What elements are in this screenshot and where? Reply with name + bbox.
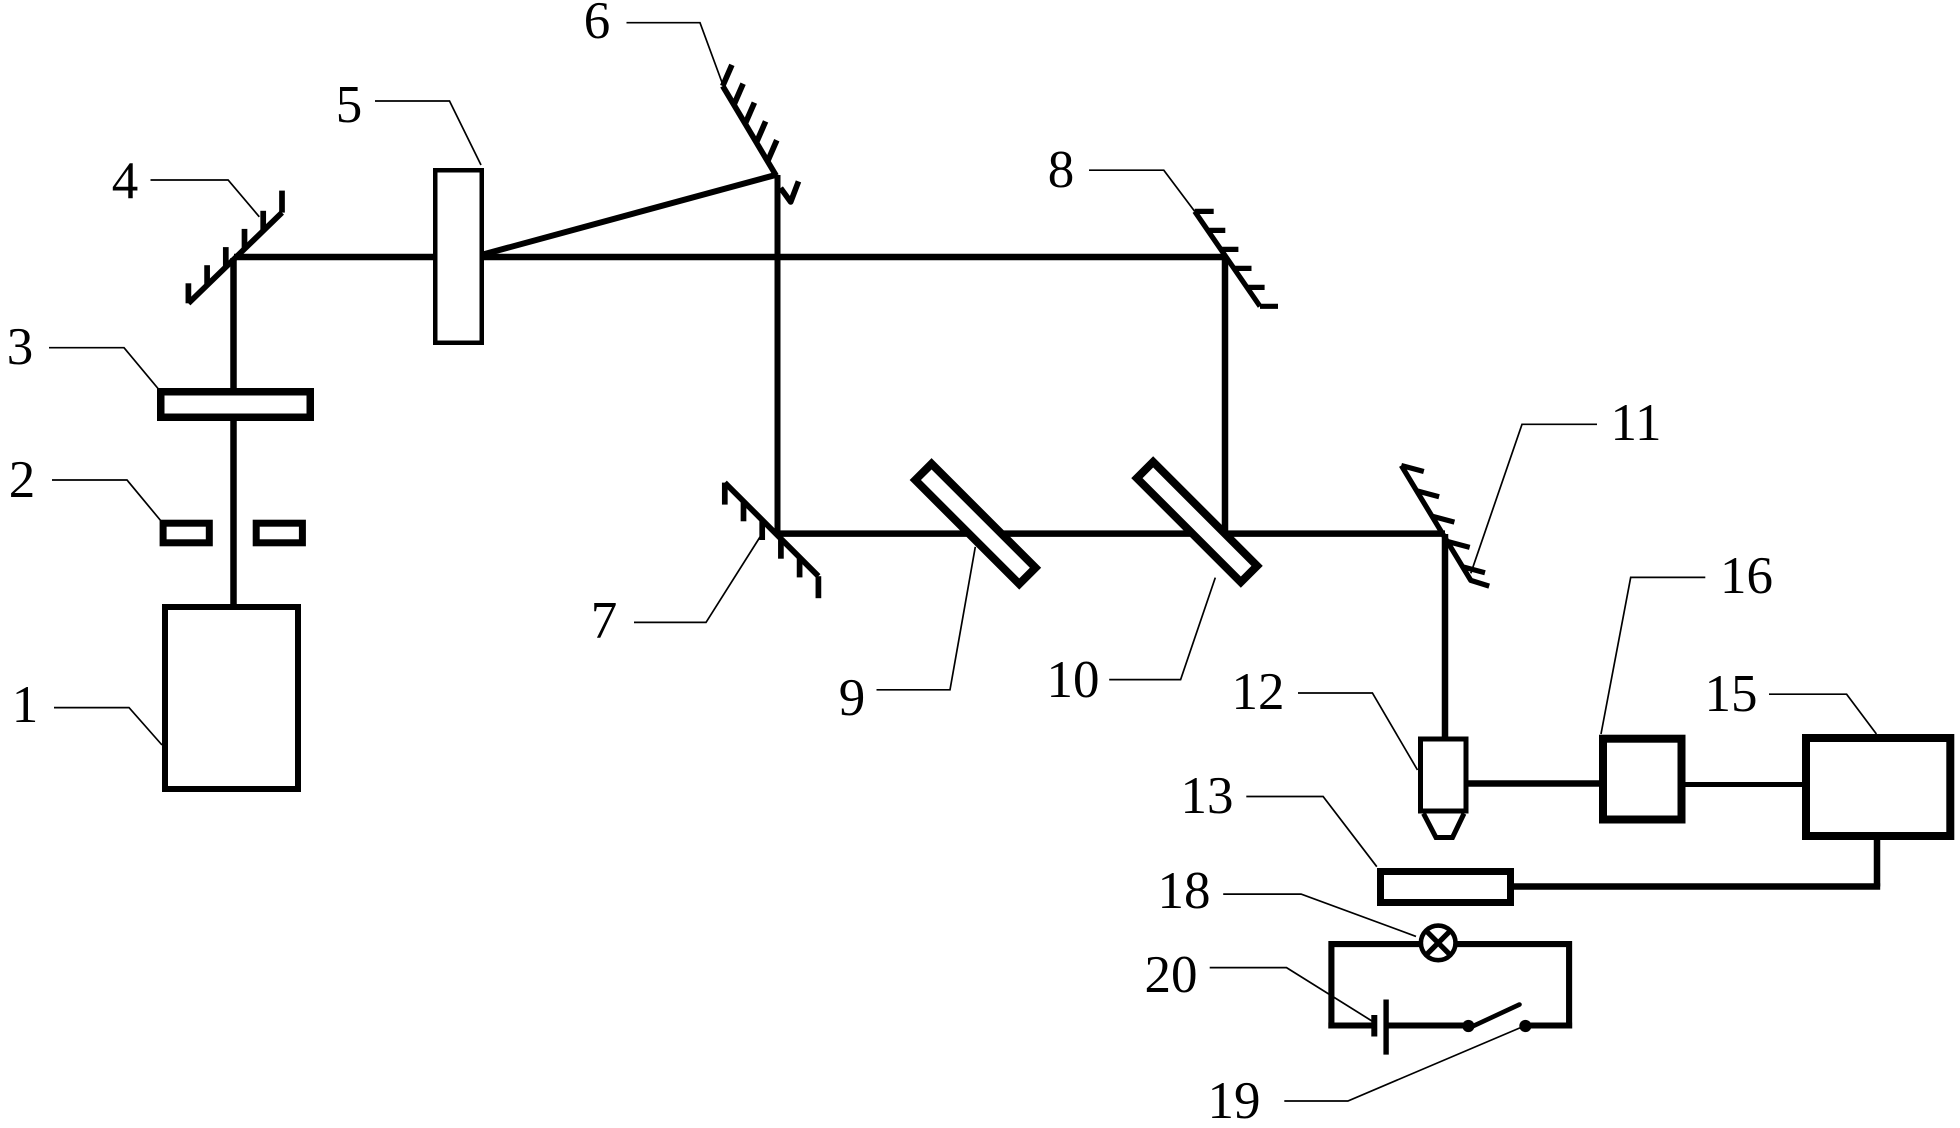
battery 20 short plate <box>1371 1015 1377 1037</box>
filter 3 <box>161 392 311 418</box>
wire: horizontal beam from modulator 5 to mirror 8 <box>460 254 1225 261</box>
svg-text:4: 4 <box>112 152 139 210</box>
svg-text:19: 19 <box>1208 1072 1261 1128</box>
svg-text:16: 16 <box>1720 547 1773 605</box>
label 18 leader <box>1223 894 1416 936</box>
wire: box 15 bottom down <box>1874 838 1881 887</box>
label 16 leader <box>1601 577 1705 734</box>
label 4 leader <box>151 180 260 217</box>
svg-text:11: 11 <box>1610 394 1661 452</box>
svg-text:20: 20 <box>1145 946 1198 1004</box>
wire: horizontal beam from mirror 7 to mirror 11 <box>778 530 1445 537</box>
label 8 leader <box>1089 170 1195 211</box>
svg-text:3: 3 <box>7 318 34 376</box>
modulator 5 <box>435 170 482 343</box>
switch 19 left contact <box>1462 1020 1474 1032</box>
wire: objective 12 to box 16 <box>1466 780 1603 787</box>
switch 19 lever <box>1469 1005 1520 1029</box>
label 19 leader <box>1284 1027 1522 1101</box>
box 16 <box>1603 739 1682 820</box>
mirror 7 <box>725 483 819 599</box>
label 11 leader <box>1471 424 1597 573</box>
svg-text:7: 7 <box>591 592 618 650</box>
switch 19 right contact <box>1519 1020 1531 1032</box>
beamsplitter 9 <box>915 464 1035 584</box>
wire: vertical beam from mirror 4 down through filter 3 to laser 1 <box>230 258 237 606</box>
svg-text:1: 1 <box>12 676 39 734</box>
label 9 leader <box>877 547 976 690</box>
label 12 leader <box>1298 693 1418 770</box>
label 7 leader <box>634 537 760 622</box>
label 6 leader <box>627 23 724 87</box>
svg-text:9: 9 <box>839 669 866 727</box>
wire: box 16 to box 15 <box>1685 782 1806 787</box>
label 5 leader <box>375 101 481 165</box>
aperture 2 left plate <box>163 523 209 543</box>
label 20 leader <box>1210 968 1372 1022</box>
stage 13 <box>1381 872 1511 903</box>
aperture 2 right plate <box>256 523 302 543</box>
wire: horizontal from stage 13 to below box 15 <box>1514 883 1880 890</box>
label 10 leader <box>1109 578 1215 680</box>
laser 1 <box>165 607 298 789</box>
wire: horizontal beam from mirror 4 to modulator 5 <box>234 254 460 261</box>
svg-text:13: 13 <box>1181 767 1234 825</box>
svg-text:6: 6 <box>584 0 611 50</box>
beamsplitter 10 <box>1137 462 1257 582</box>
svg-text:12: 12 <box>1232 663 1285 721</box>
svg-text:18: 18 <box>1158 862 1211 920</box>
label 3 leader <box>49 348 158 389</box>
mirror 4 <box>188 191 282 304</box>
svg-text:10: 10 <box>1047 651 1100 709</box>
mirror 11 <box>1401 466 1489 587</box>
objective 12 <box>1421 739 1467 838</box>
label 13 leader <box>1246 797 1377 867</box>
label 2 leader <box>52 480 161 521</box>
svg-text:15: 15 <box>1705 665 1758 723</box>
svg-text:5: 5 <box>336 76 363 134</box>
circuit loop wire <box>1328 941 1572 1029</box>
label 15 leader <box>1769 694 1876 734</box>
wire: vertical beam from mirror 6 down to mirror 7 <box>775 175 781 535</box>
mirror 8 <box>1195 211 1278 306</box>
wire: diagonal beam from modulator 5 up to mirror 6 <box>470 175 776 258</box>
label 1 leader <box>54 708 162 745</box>
mirror 6 <box>723 65 799 202</box>
wire: vertical beam from mirror 8 down to beamsplitter 10 <box>1222 257 1229 534</box>
wire: vertical beam from mirror 11 down to objective 12 <box>1442 534 1449 740</box>
battery 20 long plate <box>1383 1000 1388 1055</box>
svg-text:8: 8 <box>1048 141 1075 199</box>
lamp 18 <box>1421 926 1456 961</box>
box 15 <box>1806 738 1950 836</box>
svg-text:2: 2 <box>9 451 36 509</box>
